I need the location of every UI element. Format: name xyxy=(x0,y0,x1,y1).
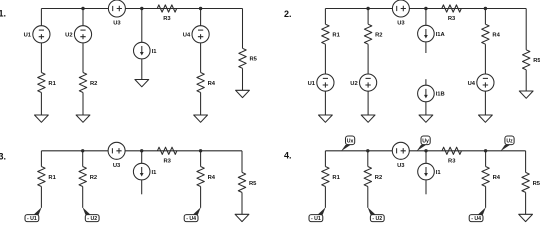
junction node c2 n1 xyxy=(366,7,369,10)
wire c3 R2 top lead xyxy=(82,151,84,167)
wire c3 I1 open stub xyxy=(141,180,143,194)
current source I1B xyxy=(418,85,445,102)
resistor R1 xyxy=(38,167,57,187)
svg-text:U1: U1 xyxy=(24,33,32,39)
wire c4 R2 bottom lead xyxy=(367,187,369,208)
resistor R2 xyxy=(79,73,97,93)
svg-text:R5: R5 xyxy=(533,58,540,64)
svg-text:I1: I1 xyxy=(152,49,158,55)
resistor R2 xyxy=(364,24,382,44)
svg-text:U3: U3 xyxy=(113,21,121,27)
svg-text:R1: R1 xyxy=(48,81,56,87)
resistor R3 xyxy=(157,5,177,22)
wire c2 R2-U2 xyxy=(367,44,369,74)
net flag Uz xyxy=(500,136,514,151)
voltage source U3 xyxy=(392,142,409,169)
wire c3 I1 top lead xyxy=(141,151,143,164)
resistor R3 xyxy=(157,147,177,164)
resistor R5 xyxy=(522,172,540,192)
ground xyxy=(76,115,90,122)
wire c3 R1 bottom lead xyxy=(40,187,42,208)
wire c2 I1B stub xyxy=(425,79,427,85)
voltage source U1 xyxy=(308,74,334,91)
resistor R2 xyxy=(364,167,382,187)
svg-text:R4: R4 xyxy=(208,81,216,87)
svg-text:R5: R5 xyxy=(250,57,258,63)
junction node c4 n3 xyxy=(484,149,487,152)
net flag -U1 xyxy=(309,207,326,222)
resistor R2 xyxy=(79,167,97,187)
svg-text:I1: I1 xyxy=(436,170,442,176)
junction node c1 n2 xyxy=(140,7,143,10)
svg-text:I1A: I1A xyxy=(436,32,446,38)
voltage source U3 xyxy=(108,0,125,27)
voltage source U2 xyxy=(350,74,376,91)
svg-text:R1: R1 xyxy=(48,175,56,181)
junction node c1 n1 xyxy=(81,7,84,10)
svg-text:R1: R1 xyxy=(332,33,340,39)
wire c1 R5 top lead xyxy=(242,9,244,49)
resistor R5 xyxy=(238,172,257,192)
wire c1 U2-R2 xyxy=(82,43,84,73)
wire c4 I1 top lead xyxy=(425,151,427,164)
svg-text:U4: U4 xyxy=(183,33,191,39)
wire c2 R5-gnd xyxy=(525,70,527,91)
wire c4 R5-gnd xyxy=(525,192,527,214)
svg-text:U1: U1 xyxy=(308,81,316,87)
svg-text:U3: U3 xyxy=(397,21,405,27)
svg-text:R3: R3 xyxy=(448,16,456,22)
wire c1 R1-gnd xyxy=(40,93,42,116)
wire c4 top rail xyxy=(325,150,525,152)
ground xyxy=(236,90,250,97)
wire c3 R2 bottom lead xyxy=(82,187,84,208)
svg-text:R5: R5 xyxy=(533,181,540,187)
wire c4 R1 top lead xyxy=(324,151,326,167)
resistor R3 xyxy=(442,147,462,164)
voltage source U4 xyxy=(468,74,494,91)
wire c3 R5 top lead xyxy=(241,151,243,173)
resistor R4 xyxy=(197,73,216,93)
svg-text:R4: R4 xyxy=(493,175,501,181)
wire c1 I1-gnd xyxy=(141,59,143,80)
svg-text:I1B: I1B xyxy=(436,92,445,98)
svg-text:I1: I1 xyxy=(152,170,158,176)
resistor R3 xyxy=(442,5,462,22)
svg-text:4.: 4. xyxy=(284,151,292,161)
net flag -U4 xyxy=(469,207,486,222)
ground xyxy=(519,214,533,221)
svg-text:- U2: - U2 xyxy=(87,216,97,222)
net flag -U1 xyxy=(25,207,42,222)
voltage source U2 xyxy=(65,26,91,43)
svg-text:2.: 2. xyxy=(284,9,292,19)
svg-text:U2: U2 xyxy=(350,81,357,87)
wire c2 R2 top lead xyxy=(367,9,369,25)
ground xyxy=(135,80,149,87)
junction node c3 n1 xyxy=(81,149,84,152)
wire c3 R4 bottom lead xyxy=(200,187,202,208)
svg-text:1.: 1. xyxy=(0,9,6,19)
wire c4 R4 bottom lead xyxy=(485,187,487,208)
current source I1A xyxy=(418,25,446,42)
wire c3 top rail xyxy=(41,150,242,152)
wire c2 U2-gnd xyxy=(367,91,369,115)
wire c2 I1B-gnd xyxy=(425,102,427,115)
junction node c4 n2 xyxy=(424,149,427,152)
voltage source U3 xyxy=(108,142,125,169)
junction node c1 n3 xyxy=(199,7,202,10)
svg-text:R1: R1 xyxy=(332,175,340,181)
wire c3 R1 top lead xyxy=(40,151,42,167)
svg-text:U3: U3 xyxy=(113,163,121,169)
resistor R4 xyxy=(482,24,501,44)
resistor R4 xyxy=(197,167,216,187)
wire c2 R1-U1 xyxy=(324,44,326,74)
net flag -U2 xyxy=(83,207,100,222)
svg-text:R4: R4 xyxy=(492,33,500,39)
svg-text:U3: U3 xyxy=(397,163,405,169)
wire c1 U1-R1 xyxy=(40,43,42,73)
net flag Uy xyxy=(417,136,431,151)
wire c1 top rail xyxy=(41,8,242,10)
resistor R1 xyxy=(322,167,341,187)
ground xyxy=(479,115,493,122)
wire c4 I1 open stub xyxy=(425,180,427,194)
resistor R1 xyxy=(322,24,341,44)
wire c1 U1 top lead xyxy=(40,9,42,26)
net flag -U2 xyxy=(368,207,385,222)
svg-text:R2: R2 xyxy=(375,33,382,39)
svg-text:Uz: Uz xyxy=(506,138,513,144)
wire c2 R4-U4 xyxy=(484,44,486,74)
wire c4 R1 bottom lead xyxy=(324,187,326,208)
wire c1 R4-gnd xyxy=(200,93,202,116)
svg-text:U4: U4 xyxy=(468,81,476,87)
svg-text:R3: R3 xyxy=(163,158,171,164)
svg-text:Uy: Uy xyxy=(422,138,429,144)
net flag Ux xyxy=(341,136,355,151)
wire c4 R5 top lead xyxy=(525,151,527,173)
svg-text:- U2: - U2 xyxy=(372,216,382,222)
svg-text:R5: R5 xyxy=(249,181,257,187)
resistor R4 xyxy=(482,167,501,187)
current source I1 xyxy=(133,163,157,180)
resistor R5 xyxy=(239,48,258,68)
svg-text:R2: R2 xyxy=(375,175,382,181)
current source I1 xyxy=(418,163,442,180)
junction node c3 n2 xyxy=(140,149,143,152)
wire c2 I1A stub xyxy=(425,42,427,53)
wire c1 U2 top lead xyxy=(82,9,84,26)
voltage source U1 xyxy=(24,26,50,43)
resistor R5 xyxy=(523,50,540,70)
svg-text:3.: 3. xyxy=(0,151,6,161)
wire c2 R4 top lead xyxy=(484,9,486,25)
ground xyxy=(519,91,533,98)
ground xyxy=(235,214,249,221)
voltage source U3 xyxy=(392,0,409,27)
svg-text:U2: U2 xyxy=(65,33,72,39)
resistor R1 xyxy=(38,73,57,93)
svg-text:- U4: - U4 xyxy=(186,216,196,222)
wire c1 U4 top lead xyxy=(200,9,202,26)
ground xyxy=(361,115,375,122)
wire c4 R4 top lead xyxy=(485,151,487,167)
svg-text:Ux: Ux xyxy=(347,138,354,144)
svg-text:R4: R4 xyxy=(208,175,216,181)
ground xyxy=(419,115,433,122)
wire c3 R4 top lead xyxy=(200,151,202,167)
junction node c2 n2 xyxy=(424,7,427,10)
svg-text:R2: R2 xyxy=(90,81,97,87)
svg-text:- U1: - U1 xyxy=(311,216,321,222)
svg-text:R3: R3 xyxy=(448,158,456,164)
wire c1 U4-R4 xyxy=(200,43,202,73)
wire c3 R5-gnd xyxy=(241,192,243,214)
net flag -U4 xyxy=(184,207,201,222)
svg-text:- U4: - U4 xyxy=(471,216,481,222)
wire c2 U4-gnd xyxy=(484,91,486,115)
wire c1 R2-gnd xyxy=(82,93,84,116)
wire c2 I1A top lead xyxy=(425,9,427,26)
wire c2 top rail xyxy=(325,8,526,10)
junction node c3 n3 xyxy=(199,149,202,152)
wire c2 R5 top lead xyxy=(525,9,527,50)
wire c1 R5-gnd xyxy=(242,68,244,90)
wire c4 R2 top lead xyxy=(367,151,369,167)
svg-text:R3: R3 xyxy=(163,16,171,22)
svg-text:R2: R2 xyxy=(90,175,97,181)
ground xyxy=(194,115,208,122)
ground xyxy=(319,115,333,122)
junction node c4 n1 xyxy=(366,149,369,152)
wire c2 U1-gnd xyxy=(324,91,326,115)
wire c1 I1 top lead xyxy=(141,9,143,43)
svg-text:- U1: - U1 xyxy=(27,216,37,222)
current source I1 xyxy=(134,42,158,59)
voltage source U4 xyxy=(183,26,209,43)
wire c2 R1 top lead xyxy=(324,9,326,25)
junction node c2 n3 xyxy=(484,7,487,10)
ground xyxy=(35,115,49,122)
